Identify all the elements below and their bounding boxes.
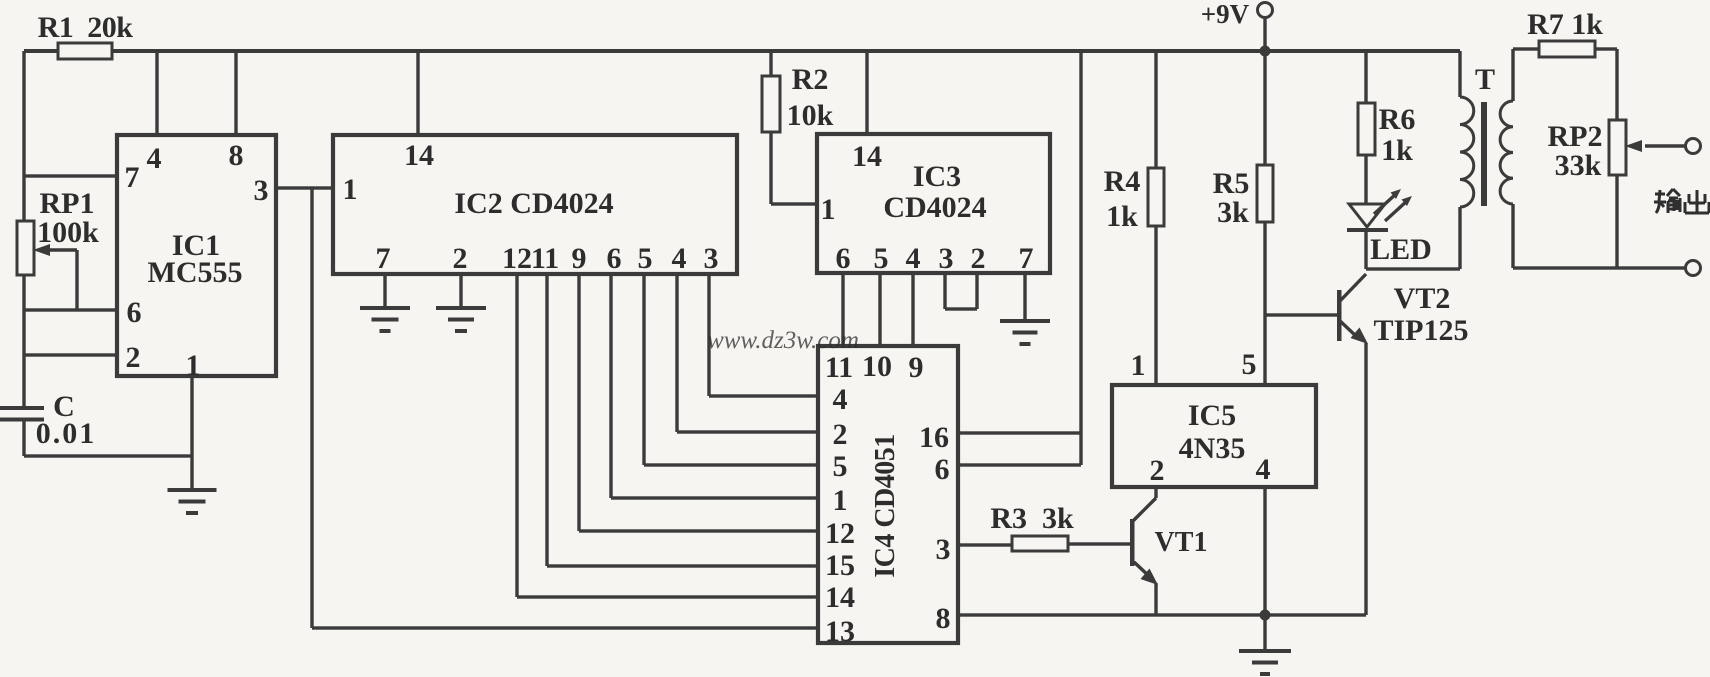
svg-text:R7 1k: R7 1k [1527, 8, 1603, 41]
svg-text:5: 5 [833, 450, 848, 483]
svg-text:4: 4 [147, 142, 162, 175]
svg-text:3: 3 [254, 174, 269, 207]
svg-text:14: 14 [404, 139, 434, 172]
svg-text:R2: R2 [792, 63, 829, 96]
svg-text:12: 12 [825, 517, 855, 550]
svg-text:3: 3 [936, 533, 951, 566]
svg-text:8: 8 [936, 602, 951, 635]
svg-text:3k: 3k [1217, 196, 1249, 229]
svg-text:11: 11 [825, 351, 853, 384]
svg-text:www.dz3w.com: www.dz3w.com [707, 327, 859, 354]
svg-text:2: 2 [971, 242, 986, 275]
svg-text:6: 6 [607, 242, 622, 275]
svg-text:2: 2 [126, 341, 141, 374]
svg-text:4: 4 [672, 242, 687, 275]
svg-text:R3 3k: R3 3k [990, 502, 1074, 535]
svg-text:+9V: +9V [1201, 0, 1250, 29]
svg-text:1k: 1k [1381, 134, 1413, 167]
svg-text:10k: 10k [787, 99, 834, 132]
svg-text:6: 6 [935, 453, 950, 486]
svg-text:2: 2 [1150, 454, 1165, 487]
svg-text:T: T [1475, 63, 1495, 96]
svg-text:4N35: 4N35 [1179, 432, 1246, 465]
svg-text:1: 1 [1131, 349, 1146, 382]
svg-text:MC555: MC555 [148, 256, 243, 289]
svg-text:14: 14 [852, 140, 882, 173]
svg-text:5: 5 [1242, 348, 1257, 381]
svg-text:1: 1 [186, 349, 201, 382]
svg-text:2: 2 [453, 242, 468, 275]
svg-text:33k: 33k [1555, 149, 1602, 182]
svg-text:TIP125: TIP125 [1373, 314, 1468, 347]
svg-text:100k: 100k [37, 216, 99, 249]
svg-text:1: 1 [821, 193, 836, 226]
svg-text:R1 20k: R1 20k [38, 11, 134, 44]
svg-text:VT2: VT2 [1394, 282, 1451, 315]
svg-text:6: 6 [836, 242, 851, 275]
svg-text:9: 9 [909, 351, 924, 384]
svg-text:6: 6 [127, 296, 142, 329]
svg-text:14: 14 [825, 581, 855, 614]
svg-text:12: 12 [502, 242, 532, 275]
svg-text:IC2 CD4024: IC2 CD4024 [454, 187, 613, 220]
svg-text:0.01: 0.01 [36, 417, 97, 450]
svg-text:R6: R6 [1379, 103, 1416, 136]
svg-text:7: 7 [125, 161, 140, 194]
svg-text:LED: LED [1370, 233, 1432, 266]
svg-text:1: 1 [833, 484, 848, 517]
svg-text:5: 5 [874, 242, 889, 275]
svg-text:3: 3 [939, 242, 954, 275]
svg-text:3: 3 [704, 242, 719, 275]
svg-text:IC5: IC5 [1188, 399, 1236, 432]
svg-text:11: 11 [531, 242, 559, 275]
svg-text:7: 7 [1019, 242, 1034, 275]
svg-text:CD4024: CD4024 [883, 191, 986, 224]
svg-text:2: 2 [833, 418, 848, 451]
svg-text:13: 13 [825, 615, 855, 648]
svg-text:4: 4 [1256, 453, 1271, 486]
svg-text:9: 9 [572, 242, 587, 275]
svg-text:4: 4 [833, 383, 848, 416]
svg-text:4: 4 [906, 242, 921, 275]
svg-text:15: 15 [825, 549, 855, 582]
svg-text:7: 7 [376, 242, 391, 275]
svg-text:16: 16 [919, 421, 949, 454]
svg-text:IC4 CD4051: IC4 CD4051 [870, 434, 901, 578]
svg-text:5: 5 [638, 242, 653, 275]
svg-text:1k: 1k [1106, 200, 1138, 233]
svg-text:1: 1 [343, 173, 358, 206]
svg-text:10: 10 [862, 350, 892, 383]
svg-text:VT1: VT1 [1155, 527, 1208, 558]
svg-text:8: 8 [229, 139, 244, 172]
svg-text:R4: R4 [1104, 165, 1141, 198]
svg-text:IC3: IC3 [913, 160, 961, 193]
